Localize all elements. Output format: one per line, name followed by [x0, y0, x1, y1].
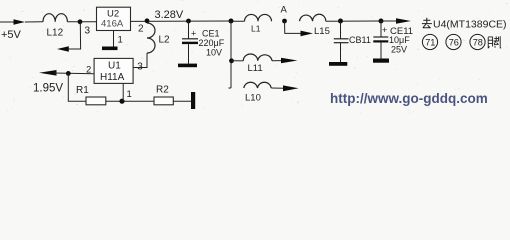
wire branch down from L12 junction [69, 22, 81, 49]
node junction L11 row [229, 58, 234, 63]
wire L2 bottom to U1 pin3 [134, 53, 148, 68]
svg-text:416A: 416A [101, 19, 124, 30]
svg-text:+: + [382, 25, 387, 35]
svg-text:R1: R1 [76, 85, 89, 96]
svg-text:A: A [281, 5, 288, 16]
node junction CE1 [186, 19, 191, 24]
capacitor CE11 10uF 25V [373, 21, 413, 59]
wire rail to output arrow [381, 20, 397, 22]
inductor L1 [245, 14, 272, 21]
wire L11 to arrow [272, 60, 282, 62]
svg-text:H11A: H11A [100, 72, 125, 83]
transistor U1 H11A (optocoupler box) [94, 58, 133, 83]
svg-text:3: 3 [85, 26, 91, 37]
svg-text:CB11: CB11 [349, 35, 371, 45]
node junction U2 pin2 / L2 [145, 18, 150, 23]
capacitor CE1 220uF 10V [182, 21, 225, 64]
node junction R1/U1 pin1 [119, 99, 124, 104]
node junction at L12 output [78, 19, 83, 24]
wire L12 to junction [67, 21, 96, 23]
inductor L11 [243, 54, 272, 61]
wire L10 row [228, 87, 231, 89]
wire 1.95V to U1 pin2 [54, 72, 94, 75]
wire R1 feed from 1.95V junction [68, 73, 86, 101]
op-amp U2 (regulator box) [97, 7, 131, 30]
svg-text:10V: 10V [206, 48, 222, 58]
ground under CB11 [329, 62, 347, 66]
resistor R1 [86, 97, 106, 105]
svg-text:1: 1 [127, 89, 132, 100]
arrow output pointing right [396, 18, 411, 23]
pin 71 circled [422, 34, 437, 49]
arrow L11 pointing right [281, 58, 297, 64]
wire U2 pin1 to ground [113, 31, 115, 47]
svg-text:71: 71 [425, 38, 435, 48]
svg-text:2: 2 [138, 24, 144, 35]
inductor L2 (vertical) [147, 23, 155, 53]
node junction CE11 [379, 19, 384, 24]
wire arrow to L12 [25, 21, 43, 23]
svg-text:10μF: 10μF [389, 35, 410, 45]
svg-text:L11: L11 [248, 63, 263, 74]
terminal bar after R2 [191, 92, 195, 109]
svg-text:3.28V: 3.28V [155, 9, 184, 21]
svg-text:U1: U1 [108, 61, 121, 72]
arrow node A branch pointing right [301, 31, 314, 37]
pin 78 circled [470, 34, 485, 49]
arrow branch pointing left [57, 46, 69, 51]
svg-text:2: 2 [86, 65, 91, 76]
ground under CE1 [178, 64, 197, 68]
wire branch from node A [285, 21, 302, 33]
wire rail L1 to A [233, 20, 245, 22]
arrow +5V pointing right [14, 19, 26, 24]
svg-text:1: 1 [118, 35, 123, 46]
node junction CB11 [338, 19, 343, 24]
wire L15 to CB11 node [326, 20, 381, 22]
arrow L10 pointing right [283, 85, 299, 91]
inductor L10 [244, 82, 271, 88]
ground under U2 [102, 47, 118, 51]
inductor L12 [43, 14, 67, 22]
svg-text:+: + [191, 29, 196, 39]
wire to L11 [232, 60, 244, 62]
svg-text:1.95V: 1.95V [33, 83, 63, 95]
svg-text:220μF: 220μF [199, 38, 225, 48]
svg-text:L10: L10 [245, 93, 261, 104]
wire vertical feed to L11/L10 rows [230, 21, 232, 88]
svg-text:L2: L2 [159, 35, 171, 46]
node destination text 去U4(MT1389CE) [422, 18, 507, 31]
svg-text:U4(MT1389CE): U4(MT1389CE) [433, 19, 507, 31]
wire rail to CE1 [162, 20, 231, 22]
inductor L15 [300, 14, 326, 21]
node junction 1.95V / R1 [66, 71, 71, 76]
svg-text:L15: L15 [314, 26, 330, 37]
wire +5V input segment [0, 21, 14, 23]
svg-text:R2: R2 [156, 85, 169, 96]
wire R1 to junction [106, 100, 154, 102]
arrow 1.95V pointing left [39, 70, 57, 76]
wire U2 pin2 to L2 node [131, 20, 163, 22]
node junction L11 feed [229, 19, 234, 24]
wire L10 to arrow [271, 87, 284, 89]
svg-text:L1: L1 [251, 24, 261, 34]
resistor R2 [154, 97, 173, 105]
svg-text:http://www.go-gddq.com: http://www.go-gddq.com [330, 91, 488, 106]
wire R2 to terminal [173, 100, 191, 102]
capacitor CB11 [334, 21, 371, 62]
svg-text:25V: 25V [391, 45, 407, 55]
node 脚 pin label [488, 36, 501, 48]
svg-text:76: 76 [449, 38, 459, 48]
wire U1 pin1 down [122, 83, 124, 101]
svg-text:78: 78 [473, 38, 483, 48]
svg-text:L12: L12 [47, 28, 64, 39]
svg-text:3: 3 [137, 61, 143, 72]
svg-text:+5V: +5V [1, 29, 22, 41]
ground under CE11 [373, 59, 389, 63]
pin 76 circled [446, 34, 461, 49]
